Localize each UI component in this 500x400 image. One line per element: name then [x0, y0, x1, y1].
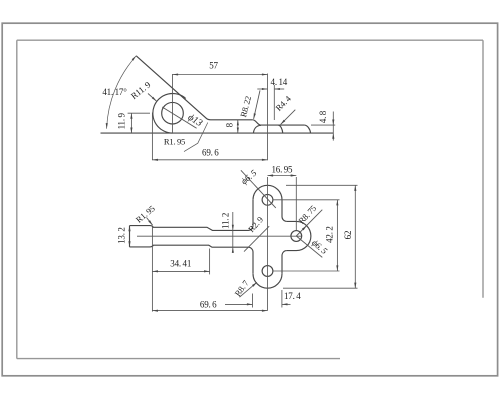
dimension 42.2: [273, 200, 339, 271]
dimension 11.2: [220, 212, 234, 253]
svg-text:11. 9: 11. 9: [116, 112, 126, 129]
part 2 bar centerline: [137, 235, 301, 237]
label Phi13 diameter leader: [162, 107, 204, 129]
svg-text:17. 4: 17. 4: [284, 291, 301, 301]
angle dimension 41.17deg arc: [102, 56, 136, 129]
extension line x=152.4 (69.6 left): [151, 113, 153, 161]
vertical centerline x=267.5: [267, 177, 269, 311]
part 1 hole circle Phi13: [162, 102, 184, 124]
part 2 bar bottom edge: [130, 245, 254, 252]
label R8.7: [233, 278, 257, 299]
dimension 17.4: [225, 290, 301, 308]
part 1 bend inner curve: [253, 125, 261, 133]
part 1 plateau line: [261, 124, 305, 126]
svg-text:R1. 95: R1. 95: [164, 137, 185, 147]
drawing frame inner border: [17, 40, 483, 358]
svg-text:57: 57: [209, 60, 218, 70]
svg-text:4. 8: 4. 8: [318, 110, 328, 123]
part 2 middle hole Phi6.5: [291, 231, 302, 242]
part 2 spine right edge upper: [282, 200, 287, 222]
label R4.4: [273, 93, 295, 124]
part 2 spine left edge lower: [252, 252, 254, 274]
svg-text:62: 62: [343, 231, 353, 240]
part 2 spine left edge upper: [252, 200, 254, 226]
part 2 spine right edge lower: [282, 251, 287, 274]
dimension 16.95: [268, 165, 297, 177]
dimension 57: [173, 60, 268, 75]
label Phi6.5 top hole: [239, 167, 276, 207]
svg-text:8: 8: [224, 122, 234, 127]
dimension 62: [283, 185, 358, 288]
svg-text:41. 17°: 41. 17°: [102, 87, 127, 97]
extension line x=267.5 (57/4.14/69.6): [267, 74, 269, 161]
extension line x=152.4 (34.41/69.6): [151, 227, 153, 312]
svg-text:42. 2: 42. 2: [325, 226, 335, 243]
label R2.9: [244, 215, 269, 252]
part 2 spine top cap arc: [253, 185, 282, 200]
svg-text:69. 6: 69. 6: [202, 147, 219, 157]
part 2 bar left end edge: [129, 226, 131, 247]
dimension 69.6 (part 2): [152, 299, 267, 311]
dimension 8: [224, 120, 239, 133]
label R1.95 (part 1): [164, 123, 208, 152]
dimension 11.9: [116, 112, 150, 133]
part 2 top hole Phi6.5: [262, 194, 273, 205]
part 1 bottom edge line: [101, 132, 334, 134]
part 2 bottom hole Phi6.5: [262, 266, 273, 277]
extension line through hole center x=172.5: [172, 74, 174, 133]
part 1 right shoulder R4.4: [304, 125, 310, 133]
svg-text:13. 2: 13. 2: [117, 227, 127, 244]
part 1 bend R8.22 top curve: [253, 120, 261, 125]
part 2 spine bottom cap arc: [253, 274, 282, 289]
extension line x=296.3: [295, 177, 297, 230]
label Phi6.5 middle hole: [296, 236, 329, 257]
part 2 middle lobe arc R8.75: [287, 221, 311, 250]
svg-text:4. 14: 4. 14: [271, 77, 288, 87]
svg-text:16. 95: 16. 95: [271, 165, 293, 175]
dimension 69.6 (part 1): [152, 147, 267, 161]
svg-text:69. 6: 69. 6: [200, 299, 217, 309]
part 1 tangent edge 41.17deg: [136, 56, 210, 120]
part 1 strip top edge: [211, 119, 253, 121]
svg-text:34. 41: 34. 41: [170, 259, 191, 269]
dimension 4.8: [311, 110, 335, 140]
part 1 mid shoulder curve: [278, 125, 283, 133]
dimension 13.2: [117, 226, 131, 247]
label R1.95 (part 2): [134, 203, 157, 225]
label R8.22: [238, 90, 260, 119]
dimension 4.14: [257, 77, 287, 120]
svg-text:11. 2: 11. 2: [220, 213, 230, 229]
part 1 outline: lobe outer arc R11.9: [153, 94, 186, 134]
label R8.75: [296, 203, 322, 236]
part 2 bar top edge: [130, 226, 254, 231]
dimension 34.41: [152, 249, 209, 275]
label R11.9: [129, 79, 157, 101]
